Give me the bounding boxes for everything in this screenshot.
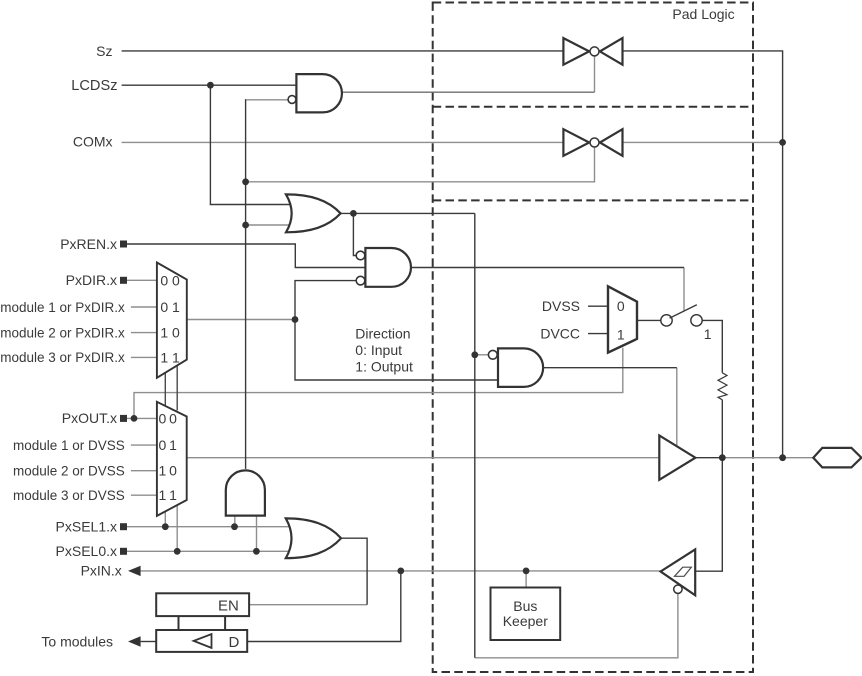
svg-text:Pad Logic: Pad Logic: [672, 6, 734, 22]
svg-text:module 2 or DVSS: module 2 or DVSS: [13, 464, 125, 479]
svg-text:0: 0: [160, 299, 168, 315]
svg-text:0: 0: [617, 298, 625, 314]
svg-text:DVCC: DVCC: [540, 325, 580, 341]
svg-text:1: 1: [159, 463, 167, 479]
svg-text:1: 1: [704, 326, 712, 342]
svg-text:0: 0: [159, 437, 167, 453]
svg-text:1: 1: [160, 349, 168, 365]
svg-text:PxDIR.x: PxDIR.x: [66, 272, 117, 288]
svg-text:module 3 or PxDIR.x: module 3 or PxDIR.x: [0, 350, 125, 365]
svg-text:Keeper: Keeper: [503, 613, 548, 629]
svg-text:0: 0: [159, 410, 167, 426]
svg-text:PxSEL0.x: PxSEL0.x: [56, 543, 117, 559]
svg-text:PxOUT.x: PxOUT.x: [62, 410, 117, 426]
svg-text:0: 0: [172, 325, 180, 341]
svg-text:Direction: Direction: [355, 326, 410, 342]
svg-text:0: Input: 0: Input: [355, 342, 402, 358]
svg-text:0: 0: [169, 463, 177, 479]
svg-text:Sz: Sz: [96, 43, 112, 59]
svg-text:module 3 or DVSS: module 3 or DVSS: [13, 488, 125, 503]
svg-text:module 1 or PxDIR.x: module 1 or PxDIR.x: [0, 300, 125, 315]
svg-text:DVSS: DVSS: [542, 298, 580, 314]
svg-text:EN: EN: [218, 598, 239, 615]
svg-text:D: D: [229, 634, 240, 651]
svg-text:1: 1: [160, 325, 168, 341]
svg-text:1: 1: [169, 487, 177, 503]
svg-text:1: Output: 1: Output: [355, 359, 413, 375]
svg-text:PxREN.x: PxREN.x: [60, 236, 117, 252]
svg-text:To modules: To modules: [41, 633, 113, 649]
svg-text:1: 1: [169, 437, 177, 453]
svg-text:PxSEL1.x: PxSEL1.x: [56, 519, 117, 535]
svg-text:1: 1: [172, 349, 180, 365]
svg-text:COMx: COMx: [73, 133, 113, 149]
svg-text:1: 1: [159, 487, 167, 503]
svg-text:0: 0: [160, 272, 168, 288]
svg-text:Bus: Bus: [513, 598, 537, 614]
svg-text:module 2 or PxDIR.x: module 2 or PxDIR.x: [0, 325, 125, 340]
svg-text:PxIN.x: PxIN.x: [81, 563, 122, 579]
svg-text:1: 1: [172, 299, 180, 315]
svg-text:1: 1: [617, 327, 625, 343]
svg-text:0: 0: [169, 410, 177, 426]
svg-text:module 1 or DVSS: module 1 or DVSS: [13, 438, 125, 453]
svg-text:0: 0: [172, 272, 180, 288]
svg-text:LCDSz: LCDSz: [71, 78, 117, 94]
